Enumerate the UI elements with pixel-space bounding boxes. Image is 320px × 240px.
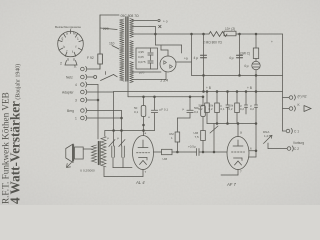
svg-text:C 2: C 2 bbox=[294, 147, 299, 151]
svg-text:+ B: + B bbox=[206, 86, 211, 90]
svg-text:0,075: 0,075 bbox=[138, 60, 146, 64]
svg-text:+: + bbox=[271, 40, 273, 44]
svg-text:C 1: C 1 bbox=[294, 130, 299, 134]
svg-text:0,1: 0,1 bbox=[221, 107, 225, 111]
svg-text:4 µ: 4 µ bbox=[229, 56, 234, 60]
svg-text:f: f bbox=[76, 45, 77, 49]
svg-text:µ: µ bbox=[117, 136, 119, 140]
svg-text:U 0,2/5000: U 0,2/5000 bbox=[80, 169, 95, 173]
svg-text:Vorburg: Vorburg bbox=[293, 141, 304, 145]
svg-text:0,05: 0,05 bbox=[138, 55, 144, 59]
svg-text:05C 808 7Ω: 05C 808 7Ω bbox=[121, 14, 140, 18]
svg-text:a: a bbox=[240, 131, 242, 135]
svg-text:+ B: + B bbox=[247, 86, 252, 90]
svg-text:4,95: 4,95 bbox=[138, 50, 144, 54]
svg-text:3: 3 bbox=[75, 99, 77, 103]
svg-text:+0,5µ: +0,5µ bbox=[188, 145, 196, 149]
svg-text:Netz: Netz bbox=[66, 76, 73, 80]
svg-text:µ: µ bbox=[107, 136, 109, 140]
svg-text:Adapter: Adapter bbox=[62, 91, 74, 95]
svg-text:Betrachtungsweise: Betrachtungsweise bbox=[55, 25, 81, 29]
svg-text:µF 0,1: µF 0,1 bbox=[160, 108, 169, 112]
svg-text:1: 1 bbox=[77, 37, 79, 41]
svg-text:0,2: 0,2 bbox=[209, 107, 213, 111]
svg-text:1: 1 bbox=[75, 117, 77, 121]
svg-text:0,2: 0,2 bbox=[229, 107, 233, 111]
svg-text:1 Z4: 1 Z4 bbox=[160, 78, 169, 83]
svg-text:4: 4 bbox=[75, 83, 77, 87]
svg-text:13+ (2): 13+ (2) bbox=[225, 27, 235, 31]
svg-text:g: g bbox=[62, 37, 64, 41]
svg-text:µ(?): µ(?) bbox=[139, 71, 144, 75]
svg-text:4 µ: 4 µ bbox=[244, 64, 249, 68]
svg-text:7,5: 7,5 bbox=[195, 135, 200, 139]
svg-text:0,1: 0,1 bbox=[134, 110, 139, 114]
svg-text:+: + bbox=[148, 116, 150, 120]
svg-text:Berg: Berg bbox=[67, 109, 74, 113]
svg-text:f: f bbox=[72, 50, 73, 54]
svg-text:F 92: F 92 bbox=[87, 56, 94, 60]
svg-text:1,2: 1,2 bbox=[264, 134, 269, 138]
svg-text:+ o: + o bbox=[163, 20, 168, 24]
svg-text:2 MΩ 800 7Ω: 2 MΩ 800 7Ω bbox=[203, 41, 223, 45]
svg-text:0,2: 0,2 bbox=[199, 107, 203, 111]
svg-text:AF 7: AF 7 bbox=[226, 182, 236, 187]
svg-text:+a: +a bbox=[184, 57, 188, 61]
svg-text:(F) N2: (F) N2 bbox=[298, 95, 307, 99]
svg-text:a: a bbox=[66, 32, 68, 36]
svg-text:(3W C): (3W C) bbox=[240, 52, 250, 56]
svg-text:AL 4: AL 4 bbox=[135, 180, 145, 185]
svg-text:f: f bbox=[67, 50, 68, 54]
svg-text:µ: µ bbox=[183, 107, 185, 111]
svg-text:6.: 6. bbox=[74, 65, 77, 69]
svg-text:2: 2 bbox=[60, 62, 62, 66]
svg-text:0,2: 0,2 bbox=[240, 107, 244, 111]
svg-text:UM: UM bbox=[163, 157, 168, 161]
svg-text:4 µ: 4 µ bbox=[194, 56, 199, 60]
svg-text:0,2: 0,2 bbox=[250, 107, 254, 111]
svg-text:110: 110 bbox=[109, 42, 115, 46]
svg-text:M: M bbox=[73, 32, 76, 36]
